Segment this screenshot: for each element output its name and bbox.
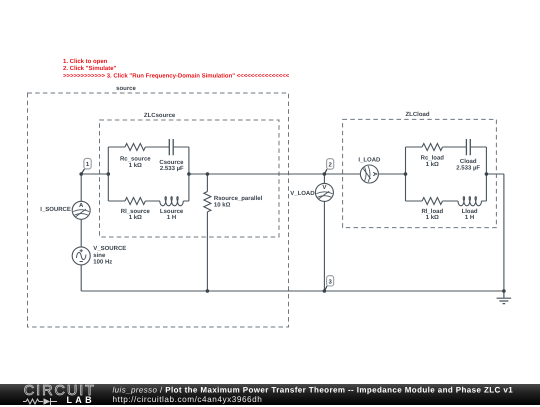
svg-text:V_LOAD: V_LOAD [290,190,315,197]
svg-text:1 kΩ: 1 kΩ [129,162,142,169]
svg-text:Rc_source: Rc_source [120,156,151,163]
svg-text:ZLCload: ZLCload [406,111,430,118]
svg-text:A: A [79,202,84,209]
svg-text:ZLCsource: ZLCsource [144,112,176,119]
svg-text:Lload: Lload [462,208,478,215]
svg-text:V: V [322,184,326,191]
svg-text:Rc_load: Rc_load [421,155,445,162]
svg-text:1 kΩ: 1 kΩ [426,214,439,221]
svg-text:sine: sine [93,252,106,259]
svg-text:Rl_load: Rl_load [421,208,443,215]
svg-text:2.533 µF: 2.533 µF [160,165,184,172]
svg-text:Csource: Csource [159,159,184,166]
svg-text:2.533 µF: 2.533 µF [456,165,480,172]
svg-text:I_SOURCE: I_SOURCE [40,206,71,213]
svg-text:1 H: 1 H [167,214,176,221]
svg-text:1. Click to open: 1. Click to open [63,58,108,65]
svg-text:Rsource_parallel: Rsource_parallel [214,195,263,202]
svg-text:10 kΩ: 10 kΩ [214,201,231,208]
svg-text:1 H: 1 H [465,214,474,221]
svg-text:2. Click "Simulate": 2. Click "Simulate" [63,65,117,72]
svg-text:Cload: Cload [460,158,477,165]
svg-text:http://circuitlab.com/c4an4yx3: http://circuitlab.com/c4an4yx3966dh [113,395,263,404]
svg-text:V_SOURCE: V_SOURCE [93,245,126,252]
svg-text:I_LOAD: I_LOAD [358,157,381,164]
svg-text:A: A [371,172,378,177]
svg-text:Lsource: Lsource [160,208,184,215]
svg-text:>>>>>>>>>>>> 3. Click "Run Fre: >>>>>>>>>>>> 3. Click "Run Frequency-Dom… [63,72,290,79]
svg-text:luis_presso / Plot the Maximum: luis_presso / Plot the Maximum Power Tra… [113,386,514,395]
svg-text:100 Hz: 100 Hz [93,259,112,266]
svg-text:1 kΩ: 1 kΩ [129,214,142,221]
svg-text:1 kΩ: 1 kΩ [426,161,439,168]
svg-text:source: source [116,86,136,92]
svg-text:Rl_source: Rl_source [121,208,151,215]
